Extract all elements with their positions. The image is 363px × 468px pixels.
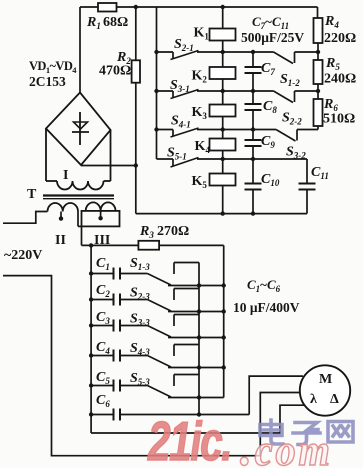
capacitor C6 row: [89, 412, 93, 416]
svg-text:S5-1: S5-1: [167, 146, 187, 162]
capacitor C3: [89, 323, 93, 327]
capacitor C8: [245, 103, 262, 105]
relay coil K5: [210, 174, 236, 186]
resistor R4 220ohm: [317, 7, 319, 18]
svg-text:S2-2: S2-2: [282, 111, 302, 127]
switch S5-1: [157, 158, 174, 160]
switch S4-3: [120, 355, 147, 357]
svg-text:C10: C10: [261, 172, 280, 188]
svg-text:I: I: [63, 168, 68, 183]
svg-text:C4: C4: [96, 340, 110, 356]
svg-text:R5: R5: [325, 56, 340, 72]
resistor R3 270ohm: [82, 244, 139, 246]
transformer primary winding I: [45, 129, 47, 182]
svg-text:C1: C1: [96, 256, 110, 272]
wire: motor lead 3 (bottom) from capacitor bank bus: [91, 405, 304, 433]
relay coil K3: [210, 105, 236, 117]
svg-text:C8: C8: [263, 99, 277, 115]
wire: output row 2: [168, 311, 224, 313]
wire: output row 5: [168, 397, 224, 399]
svg-text:C6: C6: [96, 393, 110, 409]
svg-text:C1~C6: C1~C6: [247, 277, 281, 294]
resistor R2 470ohm with leads: [135, 7, 137, 60]
switch S5-3: [120, 385, 147, 387]
svg-text:S3-2: S3-2: [286, 145, 306, 161]
capacitor C10: [245, 183, 262, 185]
switch S1-3: [120, 273, 147, 275]
svg-text:~220V: ~220V: [4, 248, 42, 263]
svg-text:C2: C2: [96, 283, 110, 299]
wire: capacitor chain vertical: [252, 52, 254, 67]
wire: bottom bus of relay/capacitor section: [136, 213, 307, 215]
node: junction top wire / R2 branch: [134, 5, 138, 9]
capacitor C7: [245, 66, 262, 68]
svg-text:C7: C7: [261, 61, 275, 77]
wire: left switch bus vertical: [156, 7, 158, 159]
svg-text:T: T: [27, 187, 37, 202]
wire: motor lead 1 (top) from C6 row: [249, 376, 303, 414]
wire: bridge output to R2 line: [81, 165, 136, 167]
bridge rectifier VD1-VD4 diamond: [46, 93, 111, 166]
resistor R6 510ohm: [314, 99, 323, 126]
svg-text:R1: R1: [86, 15, 101, 31]
watermark 21ic: [147, 411, 231, 468]
svg-text:Δ: Δ: [330, 392, 339, 407]
svg-text:C3: C3: [96, 310, 110, 326]
wire: output row 1: [168, 285, 224, 287]
transformer secondary winding II: [48, 203, 79, 212]
svg-text:R3: R3: [139, 224, 154, 240]
svg-text:21ic.: 21ic.: [147, 411, 231, 468]
switch S3-1: [157, 90, 174, 92]
wire: vertical from top wire down to bridge rectifier: [79, 7, 81, 93]
wire: bus B from R3 down: [223, 245, 225, 397]
svg-text:10 μF/400V: 10 μF/400V: [233, 300, 300, 315]
svg-text:K5: K5: [192, 174, 208, 190]
resistor R5 240ohm: [314, 60, 323, 84]
wire: row links between relay chain and capacitor chain: [223, 51, 253, 53]
svg-text:K3: K3: [192, 105, 208, 121]
svg-text:2C153: 2C153: [29, 74, 66, 89]
transformer core: [43, 194, 114, 196]
wire: output row 4: [168, 367, 224, 369]
svg-text:.com: .com: [240, 418, 333, 468]
wire: top horizontal bus from bridge top to R4: [80, 6, 318, 8]
svg-text:S1-2: S1-2: [280, 72, 300, 88]
switch S1-2: [253, 51, 274, 53]
svg-text:S4-1: S4-1: [171, 114, 191, 130]
motor M with star/delta windings: [300, 365, 350, 415]
diode symbol inside bridge: [79, 112, 81, 145]
svg-text:M: M: [319, 372, 332, 387]
capacitor C11: [299, 183, 316, 185]
resistor R1 68ohm: [98, 3, 117, 12]
capacitor C1: [89, 271, 93, 275]
wire: left bus of capacitor bank: [90, 245, 92, 433]
svg-text:C5: C5: [96, 370, 110, 386]
svg-text:S5-3: S5-3: [130, 371, 150, 387]
svg-text:S4-3: S4-3: [130, 341, 150, 357]
relay coil K1: [210, 29, 236, 41]
svg-text:470Ω: 470Ω: [99, 64, 131, 79]
svg-text:S3-1: S3-1: [170, 78, 190, 94]
switch S3-2: [253, 129, 276, 131]
svg-text:C7~C11: C7~C11: [252, 14, 289, 31]
svg-text:λ: λ: [310, 392, 317, 407]
capacitor C2: [89, 297, 93, 301]
wire: collector bus A: [198, 263, 200, 415]
wire: motor lead 2 (middle) from 220V bottom line: [260, 393, 300, 456]
svg-text:510Ω: 510Ω: [323, 112, 355, 127]
transformer secondary winding III with box: [82, 211, 120, 227]
svg-text:68Ω: 68Ω: [103, 15, 128, 30]
svg-text:S1-3: S1-3: [130, 256, 150, 272]
svg-text:K4: K4: [195, 139, 211, 155]
capacitor C4: [89, 353, 93, 357]
capacitor C9: [245, 139, 262, 141]
wire: C11 branch: [253, 158, 307, 160]
svg-text:K2: K2: [192, 69, 208, 85]
capacitor C5: [89, 383, 93, 387]
svg-text:C9: C9: [261, 134, 275, 150]
svg-text:VD1~VD4: VD1~VD4: [29, 59, 77, 75]
svg-text:270Ω: 270Ω: [157, 224, 189, 239]
switch S2-2: [253, 90, 274, 92]
svg-text:K1: K1: [194, 26, 210, 42]
switch S3-3: [120, 325, 147, 327]
wire: relay chain vertical K1-K5: [222, 7, 224, 214]
switch S4-1: [157, 129, 174, 131]
svg-text:500μF/25V: 500μF/25V: [241, 30, 304, 45]
node: junction top wire / relay chain: [221, 5, 225, 9]
svg-text:S2-1: S2-1: [174, 37, 194, 53]
svg-text:220Ω: 220Ω: [324, 31, 356, 46]
relay coil K2: [210, 67, 236, 79]
watermark .com: [240, 418, 333, 468]
svg-text:C11: C11: [311, 165, 329, 181]
wire: output row 3: [168, 337, 224, 339]
svg-text:R4: R4: [324, 14, 339, 30]
svg-text:240Ω: 240Ω: [324, 72, 356, 87]
wire: mains lower lead: [3, 276, 260, 456]
switch S2-1: [157, 51, 174, 53]
switch S2-3: [120, 299, 147, 301]
wire: winding III to R3 line: [81, 226, 83, 245]
relay coil K4: [210, 139, 236, 151]
watermark CJK glyphs (drawn): [260, 420, 353, 445]
svg-text:S3-3: S3-3: [130, 312, 150, 328]
svg-text:S2-3: S2-3: [130, 286, 150, 302]
svg-text:II: II: [55, 233, 66, 248]
